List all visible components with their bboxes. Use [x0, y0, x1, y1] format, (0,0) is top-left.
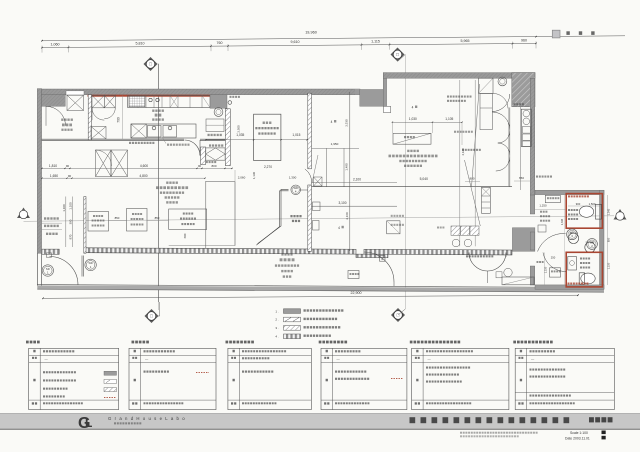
cafe large table box 3: [169, 209, 207, 229]
top-left concrete wall band: [42, 89, 360, 95]
exhaust fan circle: [498, 77, 507, 86]
slope room door arc: [46, 106, 66, 126]
svg-text:4: 4: [338, 226, 340, 230]
section line u vertical: [404, 55, 406, 310]
niche opening in top wall: [66, 91, 84, 95]
cafe tenant1 label block: [166, 182, 178, 184]
right wall inner face line: [519, 107, 521, 190]
corridor wall jog segment right: [356, 254, 388, 258]
svg-text:90: 90: [66, 164, 70, 168]
cafe small wall x84: [84, 197, 86, 254]
bar small boxes against wall: [313, 202, 321, 211]
toilet room A red outline: [566, 194, 602, 229]
svg-text:1,105: 1,105: [445, 117, 453, 121]
slope room closet xbox: [67, 95, 84, 110]
svg-text:850: 850: [155, 216, 160, 220]
svg-text:3,100: 3,100: [339, 201, 347, 205]
kitchen door arcs below xboxes: [92, 108, 104, 120]
kitchen shelf boxes: [96, 150, 112, 177]
section line i vertical: [157, 64, 160, 302]
second diagonal line lower: [465, 160, 481, 226]
spec table 5 tenant2 bar: [412, 348, 509, 409]
dim 1250 line: [535, 209, 566, 211]
bench seat boxes: [387, 221, 400, 234]
spec table 3 tenant1 cafe: [228, 348, 311, 409]
corridor label block: [281, 253, 292, 255]
segment dimension line top: [42, 43, 536, 47]
svg-text:850: 850: [607, 237, 611, 242]
stool circles: [452, 239, 460, 247]
section marker a left: [17, 208, 30, 219]
svg-text:1,100: 1,100: [69, 202, 73, 210]
spec table 2 kyouyou toilet: [129, 348, 216, 409]
svg-text:1,130: 1,130: [252, 171, 256, 179]
svg-text:1,810: 1,810: [49, 164, 57, 168]
cafe vertical dim chains: [65, 197, 67, 248]
EV shaft: [254, 114, 281, 160]
svg-text:5,810: 5,810: [136, 42, 145, 46]
section marker a right: [614, 209, 627, 220]
entry vestibule circles: [42, 265, 53, 276]
kitchen door xboxes: [92, 95, 104, 107]
toilet wing left wall segments: [530, 195, 535, 214]
appliance box left of island: [91, 127, 106, 140]
door arc in divider wall: [305, 169, 312, 185]
overall dimension line 19,960: [42, 36, 625, 41]
svg-text:4,800: 4,800: [139, 174, 147, 178]
toilet A fixture: [595, 204, 601, 219]
kitchen-slope horizontal wall y140: [42, 138, 184, 140]
svg-text:1,150: 1,150: [607, 262, 611, 269]
left wall lower thin part with entrance: [36, 253, 38, 285]
svg-text:390: 390: [69, 219, 73, 224]
washroom diagonal wall: [258, 189, 289, 243]
cafe dim row 1: [42, 167, 232, 169]
svg-text:1 .: 1 .: [275, 309, 279, 313]
top wall step block: [355, 89, 360, 95]
wash basins circles: [568, 233, 578, 243]
spec table 4 tenant1 chubou: [321, 348, 407, 409]
svg-text:22,900: 22,900: [351, 291, 362, 295]
dishwasher xbox: [206, 148, 225, 160]
tenant divider hatched wall x308: [308, 93, 312, 169]
duct shaft verticals: [326, 148, 328, 186]
svg-text:1,030: 1,030: [409, 117, 417, 121]
svg-text:4: 4: [331, 120, 333, 124]
svg-text:2,060: 2,060: [238, 175, 246, 179]
svg-text:250: 250: [551, 255, 556, 259]
bar double door arcs: [469, 253, 488, 272]
kitchen label chubou: [152, 110, 164, 112]
toilet room B red outline: [566, 252, 602, 287]
svg-text:1,480: 1,480: [344, 163, 348, 171]
register counter lines: [205, 181, 207, 248]
svg-text:900: 900: [576, 202, 581, 206]
dim column near wing: [544, 253, 546, 286]
heater label: [454, 131, 473, 133]
svg-text:2,270: 2,270: [264, 165, 272, 169]
svg-text:760: 760: [217, 41, 223, 45]
spec table 6 tenant2 kitchen cloak: [515, 348, 614, 409]
small credit lines below band: [460, 432, 538, 434]
counter pier block: [210, 95, 227, 108]
svg-text:2,100: 2,100: [353, 177, 361, 181]
wing front bench: [504, 268, 512, 276]
svg-text:1,300: 1,300: [289, 175, 297, 179]
left outer concrete wall: [37, 89, 41, 254]
top-right corner hatched block: [512, 73, 535, 107]
top-left corner thick block: [42, 94, 66, 106]
right outer wall: [530, 78, 535, 195]
svg-text:1,015: 1,015: [292, 133, 300, 137]
svg-text:1,100: 1,100: [62, 204, 66, 212]
section line a horizontal: [24, 216, 615, 222]
svg-text:G r a n d H o u s e L a b o: G r a n d H o u s e L a b o: [108, 416, 186, 421]
title band gray strip: [0, 413, 640, 429]
low table trapezoid: [393, 133, 431, 144]
svg-text:800: 800: [211, 164, 216, 168]
section marker u bottom: [391, 308, 405, 322]
upper text near top wall: [447, 96, 472, 98]
kitchen top counter: [128, 96, 226, 108]
spec table 1 kyouyou rouka: [29, 348, 119, 409]
section marker i top: [144, 57, 158, 71]
wing door arcs: [538, 233, 566, 251]
top-right concrete wall band: [383, 73, 535, 79]
svg-text:9,610: 9,610: [291, 40, 300, 44]
cafe left wall labels: [44, 217, 59, 219]
svg-text:5,965: 5,965: [461, 39, 470, 43]
washroom label: [290, 215, 301, 217]
entrance door arc: [50, 257, 79, 286]
round fixture sink: [214, 108, 223, 117]
svg-text:□: □: [150, 314, 153, 319]
red new-wall line along kitchen top: [88, 95, 212, 97]
toilet wing top wall: [535, 190, 604, 194]
corridor partition wall hatched band: [42, 248, 512, 259]
svg-text:□: □: [149, 62, 152, 67]
toilet wing right wall: [600, 190, 605, 289]
corridor door arc right: [364, 252, 394, 282]
bar slanted detail: [312, 155, 318, 183]
svg-text:3 .: 3 .: [275, 326, 279, 330]
svg-text:1,250: 1,250: [539, 204, 547, 208]
svg-text:1,650: 1,650: [50, 174, 58, 178]
svg-text:4,600: 4,600: [140, 164, 148, 168]
cafe dim row 2: [42, 177, 205, 179]
svg-text:19,960: 19,960: [305, 31, 317, 35]
svg-text:□: □: [396, 52, 399, 57]
svg-text:Scale 1:100: Scale 1:100: [570, 431, 588, 435]
kitchen right counter boxes: [206, 119, 224, 132]
svg-text:1,500: 1,500: [589, 202, 596, 206]
tenant2 upper dim row: [392, 121, 462, 123]
svg-text:5,040: 5,040: [420, 177, 428, 181]
svg-text:900: 900: [469, 177, 474, 181]
tenant2 label block: [407, 150, 419, 152]
kitchen right hatched wall x225: [225, 109, 230, 166]
svg-text:850: 850: [115, 216, 120, 220]
svg-text:1,950: 1,950: [331, 142, 339, 146]
closet front wall line: [509, 108, 511, 188]
slope room label: [61, 119, 73, 121]
wing door tag circles: [567, 229, 578, 240]
bottom boundary gray band: [37, 285, 604, 293]
svg-text:Date 2003.11.01: Date 2003.11.01: [565, 436, 590, 440]
short wall left of dishwasher: [201, 147, 206, 165]
svg-text:600: 600: [183, 233, 187, 238]
svg-text:960: 960: [521, 38, 527, 42]
plan title heimenzu top right: [552, 30, 560, 38]
slope room right wall: [88, 95, 91, 140]
svg-text:870: 870: [69, 234, 73, 239]
concrete block right-middle: [512, 228, 535, 252]
corridor small box x1000: [348, 271, 359, 279]
svg-text:700: 700: [117, 117, 121, 123]
curtain label: [466, 255, 493, 257]
door tag box 6: [380, 256, 386, 262]
drawing title text: [410, 417, 570, 423]
svg-text:2,160: 2,160: [345, 212, 349, 220]
kitchen island counter: [131, 124, 196, 138]
svg-text:2 .: 2 .: [275, 318, 279, 322]
ladder shelf column: [482, 187, 491, 213]
kitchen-cafe door arc: [185, 140, 201, 156]
cafe table box 2: [127, 209, 148, 232]
toilet wing bottom wall: [535, 285, 604, 289]
wing small boxes and labels: [545, 195, 560, 202]
svg-text:2,530: 2,530: [344, 119, 348, 127]
svg-text:1,060: 1,060: [51, 42, 60, 46]
section marker u top: [391, 48, 405, 62]
bar vertical partition x350: [349, 92, 351, 251]
bar thin verticals: [459, 80, 461, 246]
svg-text:6: 6: [381, 257, 383, 261]
bar back counter: [521, 109, 531, 146]
bottom overall dim 22,900: [43, 295, 578, 298]
tall cabinet column: [479, 78, 494, 93]
svg-text:4: 4: [412, 106, 414, 110]
svg-text:1,150: 1,150: [544, 266, 548, 273]
svg-text:2,300: 2,300: [237, 125, 241, 133]
svg-text:L: L: [85, 416, 92, 430]
svg-text:1,115: 1,115: [371, 40, 380, 44]
kitchen right labels: [208, 134, 222, 136]
toilet B fixture: [581, 273, 595, 284]
cafe table box 1: [88, 212, 109, 232]
svg-text:4 .: 4 .: [275, 335, 279, 339]
section marker i bottom: [145, 309, 159, 323]
svg-text:1,345: 1,345: [561, 218, 564, 225]
curtain diagonal line: [472, 84, 480, 187]
closet door arcs: [492, 94, 510, 112]
bar area top lines: [312, 186, 513, 188]
svg-text:1,345: 1,345: [607, 208, 611, 215]
svg-text:650: 650: [519, 176, 524, 180]
WD4 door tag circle: [291, 185, 301, 195]
svg-text:90: 90: [68, 174, 72, 178]
island label: [129, 142, 154, 144]
